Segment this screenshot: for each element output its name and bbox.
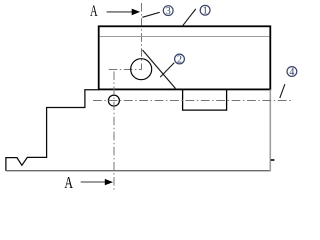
section arrow (top) [107, 9, 141, 16]
key notch under block [183, 89, 227, 110]
centerline V2 (pin axis, vertical) [113, 71, 115, 191]
svg-text:1: 1 [203, 6, 208, 17]
svg-text:3: 3 [166, 6, 171, 17]
fixture step profile (left) [6, 90, 99, 171]
workpiece block outline [99, 26, 271, 89]
right edge below block (thin) [269, 89, 271, 171]
center mark H1 (hole horizontal axis) [109, 69, 142, 71]
diagonal locating pin line [143, 50, 176, 89]
svg-text:A: A [64, 173, 73, 192]
hole circle C1 [131, 59, 152, 80]
svg-text:2: 2 [177, 54, 182, 65]
leader to balloon 3 [142, 12, 159, 17]
leader to balloon 1 [182, 9, 196, 26]
svg-text:4: 4 [289, 67, 294, 78]
leader to balloon 4 [280, 84, 285, 98]
section arrow (bottom) [81, 179, 113, 185]
balloon 3 [163, 6, 173, 17]
svg-text:A: A [90, 2, 98, 20]
centerline H2 (horizontal axis) [93, 100, 293, 102]
small pin circle C2 [108, 95, 119, 106]
centerline V1 (cutting plane / hole axis) [141, 3, 143, 70]
small tick on right edge [271, 159, 275, 161]
balloon 1 [200, 5, 210, 16]
base line (bottom, thin) [6, 170, 271, 172]
balloon 4 [287, 67, 297, 78]
thin parting line inside block [100, 36, 270, 38]
balloon 2 [175, 54, 185, 65]
leader to balloon 2 [160, 63, 174, 77]
